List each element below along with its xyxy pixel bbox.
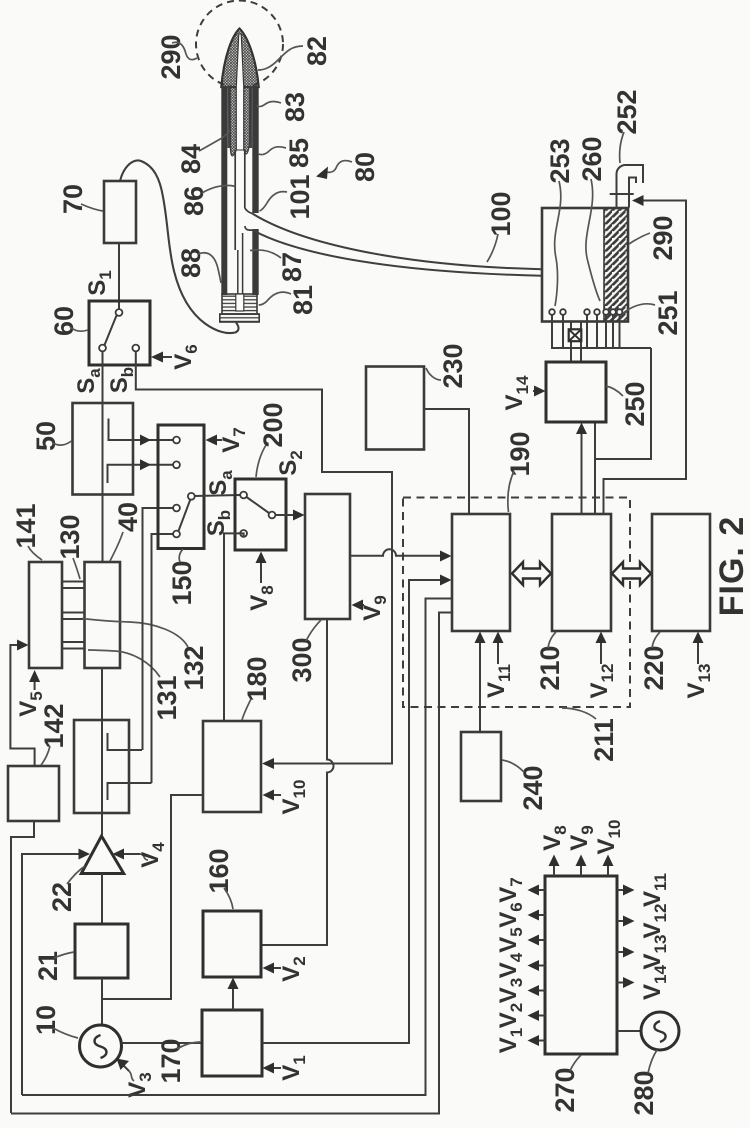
wire box70 to switch60: [118, 243, 120, 309]
wire box50 to box40 main line: [102, 495, 104, 563]
leader 101: [260, 192, 288, 211]
leader 240: [502, 760, 524, 772]
probe 80 inner lining right: [249, 86, 252, 148]
svg-text:50: 50: [31, 421, 61, 451]
V10 output arrow top: [607, 861, 609, 876]
lower coupler element lower: [108, 783, 152, 800]
svg-text:200: 200: [258, 402, 288, 447]
svg-text:60: 60: [49, 306, 79, 336]
box 230: [366, 367, 424, 450]
leader 200: [256, 445, 266, 477]
S2 contact Sa: [240, 492, 247, 499]
lower coupler element upper: [108, 733, 143, 750]
main line through lower coupler: [101, 720, 103, 813]
box 253 container: [542, 208, 628, 322]
svg-text:250: 250: [620, 381, 650, 426]
switch box 200 S2: [235, 479, 286, 550]
probe 80 right outer wall upper: [252, 86, 258, 213]
leader 211: [562, 708, 596, 719]
probe tube exit bend: [245, 208, 253, 230]
V3 arrow into source 10: [122, 1064, 129, 1071]
wire box142 bottom to outer bottom bus: [11, 821, 34, 1113]
svg-text:131: 131: [152, 675, 182, 720]
pipe 252: [617, 165, 644, 208]
svg-text:40: 40: [113, 502, 143, 532]
switch box 150: [158, 425, 204, 549]
arrowhead Sb60 wire into box 180: [262, 758, 274, 769]
source 10 circle: [80, 1025, 122, 1067]
leader 160: [224, 888, 233, 909]
probe 84 inner crosshatch lobe right: [244, 87, 251, 154]
amplifier 22 triangle: [81, 836, 123, 874]
svg-text:211: 211: [589, 718, 619, 762]
tube 101/100 upper line to box 253: [252, 214, 542, 270]
V14 output arrow right: [617, 982, 628, 984]
connector bottom rail: [551, 347, 651, 349]
svg-text:290: 290: [156, 34, 186, 79]
wire loop box142 top to box141 left with arrow: [10, 645, 34, 766]
svg-text:280: 280: [629, 1070, 659, 1115]
leader 290 right: [629, 233, 650, 244]
box 40: [85, 562, 121, 668]
box 160: [203, 911, 261, 977]
leader 141: [28, 546, 42, 560]
dashed circle 290 (detail balloon): [196, 1, 283, 88]
cable from box 70 to probe plug: [120, 160, 239, 333]
svg-text:132: 132: [179, 645, 209, 690]
probe plug 81 base: [220, 314, 259, 322]
wire box170 right up to box 190: [262, 580, 446, 1043]
wire box 21 to source 10: [101, 978, 103, 1025]
svg-text:253: 253: [545, 138, 575, 183]
leader 260 wavy: [586, 179, 600, 301]
switch 150 pivot wire to S2: [195, 495, 241, 496]
leader 80: [326, 161, 352, 173]
svg-text:251: 251: [653, 290, 683, 335]
switch 60 arm: [105, 316, 117, 346]
leader 180: [242, 699, 251, 720]
leader 280: [648, 1050, 657, 1073]
svg-text:80: 80: [350, 152, 380, 182]
V6 arrow: [156, 356, 172, 358]
probe inner tube 87 lower channel: [238, 233, 243, 294]
V11 output arrow right: [617, 889, 628, 891]
leader 252: [620, 132, 624, 163]
svg-text:230: 230: [438, 343, 468, 388]
switch box 60: [89, 301, 150, 365]
leader 300: [306, 620, 321, 641]
wire box300 right to box 190 with hop: [350, 549, 446, 556]
leader 50: [53, 441, 72, 445]
leader 10: [53, 1028, 78, 1038]
svg-text:82: 82: [302, 36, 332, 66]
V2 output arrow left: [534, 1015, 545, 1017]
V10 arrow into box 180: [269, 794, 281, 796]
svg-text:87: 87: [277, 252, 307, 282]
leader 84: [199, 130, 230, 151]
svg-text:252: 252: [612, 89, 642, 134]
leader 85: [259, 147, 286, 155]
hatched strip 260/290: [604, 208, 628, 322]
probe plug white slot: [236, 294, 244, 311]
V1 output arrow left: [534, 1040, 545, 1042]
V7 output arrow left: [534, 889, 545, 891]
leader 86: [202, 185, 236, 193]
svg-text:240: 240: [518, 765, 548, 810]
double arrow 210-220: [612, 562, 651, 585]
V13 arrow into box 220 bottom: [697, 638, 699, 664]
probe 80 right outer wall lower: [252, 229, 258, 295]
wire box300 bottom to box 160 with hop: [261, 619, 334, 945]
wire rail to box250/box210 node: [595, 348, 651, 459]
svg-text:270: 270: [550, 1067, 580, 1112]
probe central slot white: [236, 34, 243, 150]
box 141: [29, 562, 62, 668]
switch 60 top contact: [116, 309, 123, 316]
svg-text:180: 180: [242, 656, 272, 701]
V6 output arrow left: [534, 914, 545, 916]
leader 290 top: [172, 42, 197, 59]
V5 arrow into box141 bottom: [34, 676, 36, 690]
main line box40 to coupler box: [101, 668, 103, 720]
switch 150 contact 4: [173, 531, 180, 538]
source 10 tilde: [95, 1035, 107, 1058]
svg-text:170: 170: [156, 1038, 186, 1083]
V2 arrow into box 160: [269, 967, 281, 969]
pipe cross tick: [610, 193, 634, 195]
leader 190: [508, 471, 514, 512]
svg-text:81: 81: [288, 285, 318, 315]
leader 170: [177, 1042, 201, 1049]
probe 80 left outer wall: [221, 86, 227, 295]
svg-text:142: 142: [39, 703, 69, 748]
connector legs below box 253: [552, 315, 620, 348]
switch 150 contact 1: [173, 437, 180, 444]
wire box50 to switch150 contact 1: [133, 439, 173, 441]
svg-text:160: 160: [204, 848, 234, 893]
V12 output arrow right: [617, 920, 628, 922]
tube 101/100 lower line to box 253: [252, 230, 542, 276]
junction wire to box 180 riser: [102, 795, 203, 999]
box 270: [545, 876, 617, 1054]
leader 100: [487, 234, 498, 262]
switch S2 arm: [247, 497, 270, 513]
wire Sa60 down to box 50: [102, 352, 104, 404]
leader 87: [250, 250, 281, 258]
svg-text:290: 290: [648, 215, 678, 260]
wire switch150 contact4 down to coupler: [152, 534, 177, 783]
svg-text:300: 300: [287, 637, 317, 682]
box 70: [104, 181, 136, 243]
switch 60 contact Sa: [99, 345, 106, 352]
V3 output arrow left: [534, 990, 545, 992]
S2 contact Sb: [240, 530, 247, 537]
leader 210: [548, 632, 556, 648]
wire box 270 to source 280: [617, 1030, 641, 1032]
leader V3: [129, 1071, 134, 1081]
leader 22: [67, 866, 85, 884]
terminal circles in box 253: [549, 309, 555, 315]
probe central tube 86 walls: [235, 150, 245, 250]
probe 84 inner crosshatch lobe left: [229, 87, 236, 156]
svg-text:101: 101: [285, 174, 315, 219]
rung 1 between 141 and 40: [62, 582, 85, 589]
svg-text:141: 141: [11, 503, 41, 548]
outer bottom bus box190 to box142 loop: [11, 613, 452, 1114]
S2 pivot wire to box 300 with arrow: [275, 514, 300, 516]
coupler box 20 (lower coupler): [74, 720, 129, 813]
box 142: [8, 766, 59, 821]
wire box 250 bottom to box 210 top via node: [594, 422, 596, 514]
probe 80 tip cone crosshatch: [221, 29, 258, 88]
V4 arrow into amp: [122, 853, 140, 855]
rung 2 between 141 and 40: [62, 613, 85, 620]
dashed enclosure 211: [403, 498, 630, 708]
box 210: [552, 514, 611, 631]
switch 150 contact 2: [173, 461, 180, 468]
wire box50 to switch150 contact 2: [133, 464, 173, 466]
V11 arrow into box 190 bottom: [497, 638, 499, 664]
X-box connector symbol 251: [569, 329, 582, 341]
arrowhead 80: [316, 167, 328, 180]
main line through box 50: [102, 403, 104, 495]
S2 pivot contact: [269, 512, 276, 519]
V12 arrow into box 210 bottom: [600, 638, 602, 664]
switch 150 pivot contact: [188, 493, 195, 500]
leader 132: [82, 619, 188, 648]
svg-text:85: 85: [284, 138, 314, 168]
V8 output arrow top: [553, 861, 555, 876]
leader 88: [198, 253, 221, 283]
box 250: [546, 362, 606, 422]
leader 270: [570, 1055, 581, 1071]
box 300: [305, 494, 350, 619]
wire box 240 to box 190 bottom: [479, 638, 481, 732]
box 21: [75, 924, 128, 978]
svg-text:130: 130: [55, 514, 85, 559]
wire amp to box 21: [101, 874, 103, 925]
rung 3 between 141 and 40: [62, 642, 85, 649]
svg-text:83: 83: [280, 92, 310, 122]
svg-text:FIG. 2: FIG. 2: [713, 516, 750, 616]
wire box 210 top arrow up into box 250: [581, 428, 583, 514]
svg-text:70: 70: [58, 184, 88, 214]
V13 output arrow right: [617, 951, 628, 953]
probe plug 81 body: [222, 294, 257, 314]
inner bottom bus box190 to amp: [22, 599, 452, 1096]
box 240: [461, 732, 501, 801]
V1 arrow into box 170: [269, 1067, 281, 1069]
leader 130: [73, 558, 80, 579]
switch 60 contact Sb: [132, 345, 139, 352]
V5 output arrow left: [534, 939, 545, 941]
leader 70: [81, 204, 103, 211]
svg-text:100: 100: [486, 191, 516, 236]
box 190: [452, 514, 510, 631]
wire S2 Sb down to box 180: [224, 533, 244, 721]
main line coupler to amplifier: [101, 813, 103, 835]
leader 253 wavy: [555, 181, 561, 306]
V7 arrow into 150: [211, 439, 222, 441]
source 280 tilde: [654, 1021, 665, 1042]
box 170: [202, 1010, 262, 1076]
wire pipe arrow loop down to box 210: [604, 201, 687, 515]
svg-text:84: 84: [176, 144, 206, 174]
svg-text:22: 22: [47, 882, 77, 912]
V4 output arrow left: [534, 965, 545, 967]
coupler element upper in box 50: [109, 419, 134, 441]
connector X-box legs: [571, 322, 581, 363]
double arrow 190-210: [512, 562, 551, 585]
box 50: [73, 403, 134, 495]
leader 250: [606, 386, 623, 396]
svg-text:150: 150: [167, 560, 197, 605]
wire source 10 to box 170: [122, 1042, 203, 1044]
svg-text:210: 210: [535, 645, 565, 690]
svg-text:220: 220: [639, 645, 669, 690]
switch 150 contact 3: [173, 505, 180, 512]
box 180: [203, 721, 261, 812]
leader 40: [110, 532, 123, 561]
svg-text:260: 260: [577, 136, 607, 181]
wire Sb60 long path to box 180: [136, 352, 392, 764]
coupler element lower in box 50: [108, 465, 134, 483]
V14 arrow into box 250: [533, 390, 536, 392]
V9 arrow into box 300 right: [358, 604, 364, 606]
leader 220: [652, 632, 660, 648]
switch 150 arm: [179, 499, 191, 531]
feedback wire into amp left from inner bus: [22, 854, 82, 1095]
leader 82: [258, 46, 303, 70]
svg-text:86: 86: [179, 186, 209, 216]
leader 150: [179, 549, 183, 562]
leader 230: [426, 368, 441, 380]
leader 131: [88, 650, 160, 677]
svg-text:190: 190: [505, 431, 535, 476]
V8 arrow into S2 bottom: [260, 558, 262, 583]
leader 83: [257, 102, 282, 107]
leader 21: [54, 952, 74, 958]
box 220: [652, 514, 710, 631]
arrow box 170 to box 160: [232, 984, 234, 1010]
wire switch150 contact3 down to coupler: [143, 508, 177, 750]
leader 60: [70, 327, 88, 331]
probe 80 inner lining left: [227, 86, 231, 148]
source 280 circle: [641, 1012, 679, 1050]
V9 output arrow top: [580, 861, 582, 876]
leader 142: [41, 746, 50, 765]
leader 251: [623, 304, 655, 313]
wire box230 right to box 190 top: [424, 409, 469, 514]
leader V4: [140, 854, 148, 860]
leader 81: [259, 292, 291, 305]
